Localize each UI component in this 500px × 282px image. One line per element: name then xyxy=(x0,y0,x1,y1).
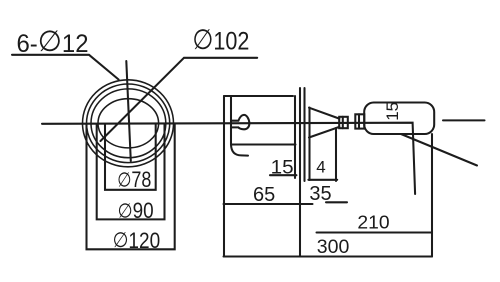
underscore after 35 xyxy=(326,201,347,203)
shaft square A inner line xyxy=(342,117,344,128)
rect d78 xyxy=(105,124,156,190)
dim line 65-35 xyxy=(224,203,313,205)
cone top edge xyxy=(309,108,339,119)
extension line right of 4 xyxy=(335,128,337,181)
right horizontal line xyxy=(443,119,485,121)
leader line for d102 xyxy=(101,58,258,141)
svg-text:300: 300 xyxy=(317,236,350,258)
vertical centerline of flange xyxy=(126,61,131,161)
horizontal centerline xyxy=(42,123,415,194)
shaft square B xyxy=(355,114,364,128)
flange line 1 xyxy=(294,96,296,178)
cone bottom edge xyxy=(309,127,339,138)
wire tail curve xyxy=(231,145,248,156)
capsule body xyxy=(364,103,434,135)
bottom line 300 xyxy=(224,255,433,257)
flange circle 2 xyxy=(87,84,170,163)
svg-text:6-∅12: 6-∅12 xyxy=(17,26,89,58)
pin on centerline xyxy=(232,115,249,129)
shaft square B inner line xyxy=(358,114,360,128)
rect d90 xyxy=(97,124,165,219)
cone left edge / extension line xyxy=(308,108,310,181)
svg-text:∅78: ∅78 xyxy=(117,167,151,192)
svg-text:∅120: ∅120 xyxy=(113,228,161,253)
svg-text:15: 15 xyxy=(383,102,402,121)
flange line 2 xyxy=(299,88,301,257)
underline for 15 xyxy=(270,174,296,176)
underline for 4 xyxy=(308,179,337,181)
body left edge xyxy=(223,96,225,257)
flange bore circle xyxy=(98,99,159,148)
svg-text:∅90: ∅90 xyxy=(118,198,154,223)
leader line for 6-d12 xyxy=(12,55,119,80)
flange line 3 xyxy=(303,88,305,181)
svg-text:∅102: ∅102 xyxy=(192,24,249,56)
body inner shelf line xyxy=(231,143,296,145)
svg-text:4: 4 xyxy=(316,157,325,176)
dim line 210 xyxy=(317,231,433,233)
shaft square A xyxy=(339,117,348,128)
body top edge xyxy=(224,95,293,97)
long diagonal from capsule xyxy=(401,134,477,166)
rect d120 xyxy=(87,124,175,249)
svg-text:210: 210 xyxy=(357,211,389,232)
flange outer circle xyxy=(83,80,174,167)
flange circle 3 xyxy=(91,89,166,158)
svg-text:65: 65 xyxy=(253,184,275,206)
capsule right drop line xyxy=(431,134,433,257)
body inner vertical xyxy=(230,96,232,145)
